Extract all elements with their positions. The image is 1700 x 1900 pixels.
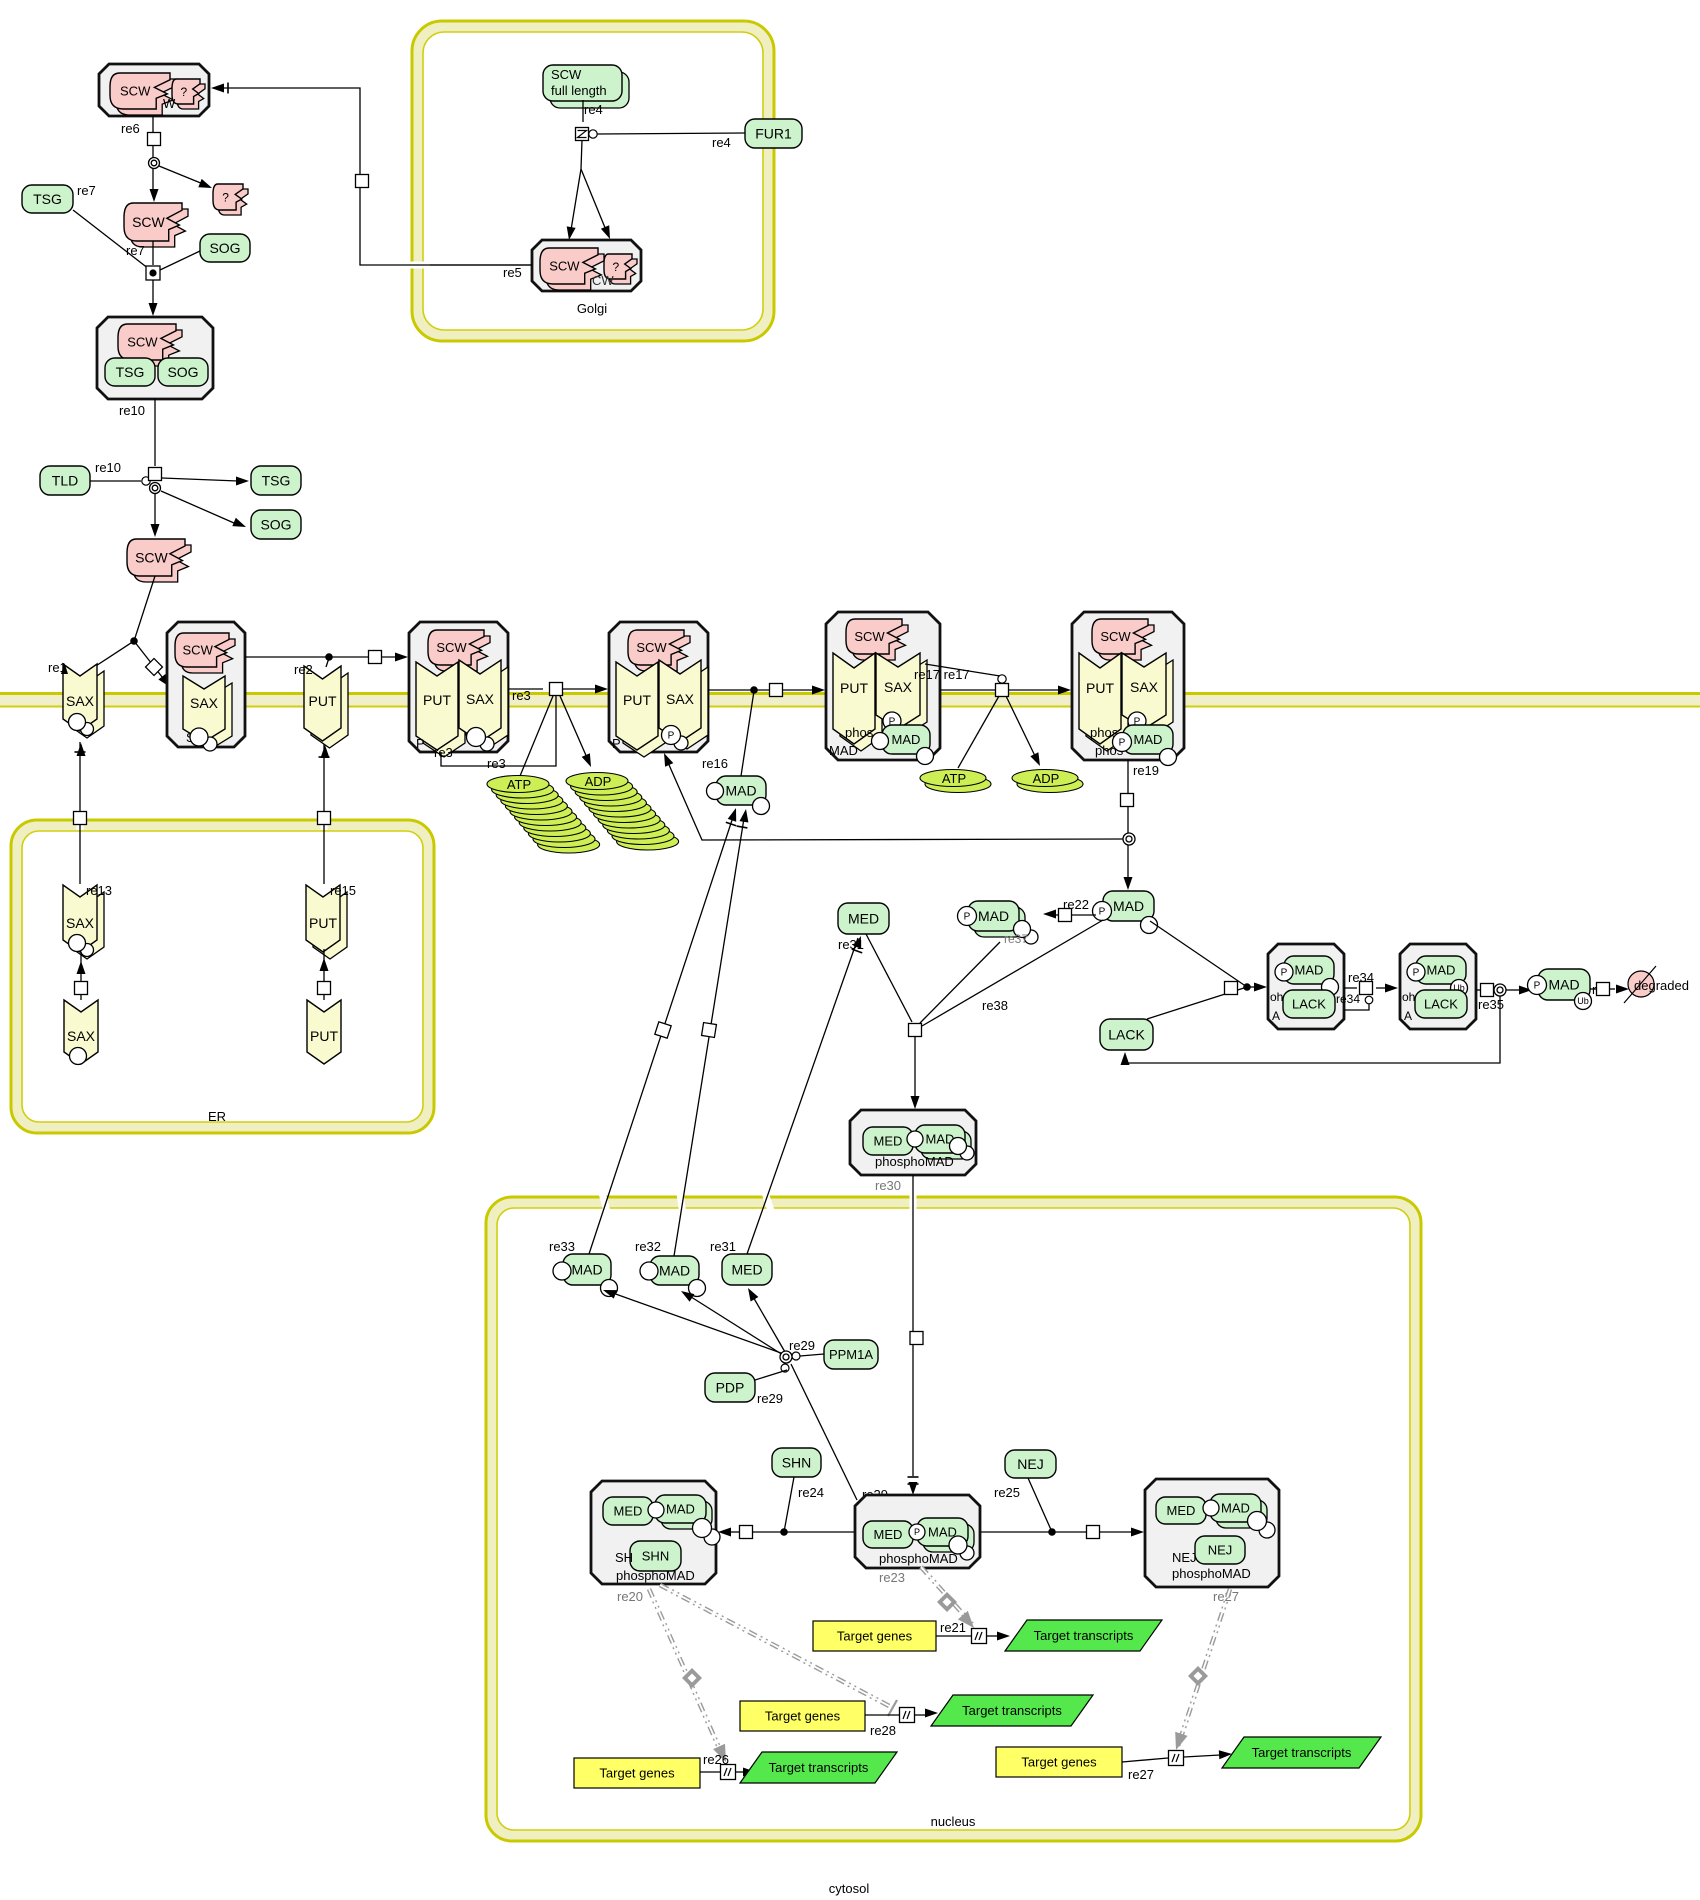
arrow re35 into LACK	[1121, 1052, 1130, 1065]
svg-text:PUT: PUT	[309, 693, 337, 709]
svg-text:re7: re7	[77, 183, 96, 198]
protein TSG product	[251, 466, 301, 495]
svg-text:P: P	[1119, 738, 1126, 749]
protein SOG in re10	[158, 358, 208, 386]
svg-text:SCW: SCW	[135, 550, 168, 566]
arrow re4 right branch	[601, 225, 610, 239]
state circle re34L white	[1322, 979, 1339, 996]
state circle re23 br	[949, 1536, 967, 1554]
arrow re4 left branch	[567, 226, 576, 240]
truncated protein SCW dimer (extracellular, re7 substrate)	[130, 209, 188, 247]
wire re29 product to MAD re33	[610, 1292, 781, 1353]
protein NEJ in re27	[1195, 1536, 1245, 1564]
svg-text:PUT: PUT	[840, 680, 868, 696]
svg-text:re7: re7	[126, 243, 145, 258]
svg-text:re15: re15	[330, 883, 356, 898]
svg-text:SAX: SAX	[884, 679, 913, 695]
wire re19 to MAD re22	[1127, 845, 1129, 884]
svg-text:re20: re20	[617, 1589, 643, 1604]
process square PUT ER	[318, 982, 331, 995]
svg-text:SCW: SCW	[436, 640, 467, 655]
complex re6 (SCW + ?)	[99, 64, 209, 116]
receptor PUT monomer in ER	[307, 1000, 341, 1064]
protein MED in re23	[863, 1521, 913, 1548]
dissociation glyph re29 hub	[780, 1351, 792, 1363]
process square re10	[149, 468, 162, 481]
svg-text:re3: re3	[487, 756, 506, 771]
truncated protein SCW in C2	[434, 636, 490, 671]
truncated protein ? in complex re6	[177, 84, 205, 109]
protein TSG	[22, 185, 73, 213]
junction dot re24	[780, 1528, 788, 1536]
svg-text:SCW: SCW	[551, 67, 582, 82]
svg-text:MAD: MAD	[829, 743, 858, 758]
svg-text:re32: re32	[635, 1239, 661, 1254]
wire re34 main	[1344, 987, 1357, 989]
svg-text:MED: MED	[874, 1134, 903, 1149]
state circle MAD re32 left	[640, 1262, 658, 1280]
svg-text:MAD: MAD	[1427, 963, 1456, 978]
transport ticks into re23	[908, 1476, 919, 1478]
svg-text:PUT: PUT	[310, 1028, 338, 1044]
svg-text:re33: re33	[549, 1239, 575, 1254]
svg-text:MED: MED	[731, 1262, 762, 1278]
svg-text:P: P	[964, 912, 971, 923]
svg-text:SAX: SAX	[666, 691, 695, 707]
transcription square B	[900, 1708, 915, 1723]
svg-text:re4: re4	[712, 135, 731, 150]
protein MAD in re34R	[1416, 956, 1466, 984]
RNA Target transcripts B	[931, 1695, 1093, 1726]
arrow re22 into MAD dimer	[1043, 910, 1056, 919]
truncated protein ? in re5	[609, 259, 637, 284]
svg-text:PDP: PDP	[716, 1380, 745, 1396]
wire re4 down	[582, 100, 584, 122]
ER compartment	[11, 820, 434, 1133]
state circle MAD re16 bottom right	[753, 798, 770, 815]
complex re10 (SCW/TSG/SOG)	[97, 317, 213, 399]
svg-text:Target genes: Target genes	[599, 1766, 675, 1781]
arrow re16 into complex C4	[812, 686, 825, 695]
simple molecule ADP pair	[1017, 776, 1083, 793]
dissociation glyph re6	[149, 158, 160, 169]
protein PPM1A	[824, 1340, 878, 1369]
wire PDP to hub	[755, 1370, 787, 1380]
protein MAD re16	[716, 776, 766, 805]
svg-text:SHN: SHN	[642, 1549, 669, 1564]
svg-text:phosphoMAD: phosphoMAD	[875, 1154, 954, 1169]
svg-text:re16: re16	[702, 756, 728, 771]
arrow re29 to re33	[603, 1290, 617, 1299]
svg-text:re27: re27	[1128, 1767, 1154, 1782]
trigger wire re27 dashed	[1178, 1589, 1230, 1746]
svg-text:re24: re24	[798, 1485, 824, 1500]
svg-text:Target transcripts: Target transcripts	[1252, 1745, 1352, 1760]
arrow re3 into complex C3	[595, 685, 608, 694]
catalysis circle PPM1A	[792, 1352, 800, 1360]
svg-text:MAD: MAD	[725, 783, 756, 799]
complex re5 (SCW + ?) in Golgi	[532, 240, 641, 291]
state circle C5 MAD br	[1160, 749, 1177, 766]
complex C3 PUT/SAX/SCW phosphorylated	[609, 622, 708, 752]
process square re15 on ER border	[318, 812, 331, 825]
wire re15 transport PUT from ER	[321, 806, 328, 830]
svg-text:Target genes: Target genes	[765, 1709, 841, 1724]
trigger arrow re27	[1175, 1732, 1187, 1750]
svg-text:SCW: SCW	[120, 84, 151, 99]
wire re19 return to complex C3	[666, 758, 1123, 840]
protein MAD in C4	[882, 725, 930, 754]
process square re30	[909, 1024, 922, 1037]
wire re1 junction to SAX	[82, 641, 134, 675]
svg-text:SCW: SCW	[549, 259, 580, 274]
arrow re6 to ?	[198, 179, 212, 188]
state circle re20 MAD left	[648, 1502, 664, 1518]
svg-text:MAD: MAD	[666, 1502, 695, 1517]
svg-text:NEJ: NEJ	[1208, 1543, 1233, 1558]
receptor SAX in C4	[883, 660, 927, 736]
wire ER PUT synthesis	[323, 949, 325, 1000]
state circle MAD re33 br	[601, 1280, 618, 1297]
process square re16	[770, 684, 783, 697]
svg-text:ER: ER	[208, 1109, 226, 1124]
wire re35 to product	[1506, 989, 1520, 991]
state circle re30 br shadow	[960, 1146, 974, 1160]
catalysis circle PDP	[781, 1364, 789, 1372]
svg-text:LACK: LACK	[1292, 997, 1326, 1012]
svg-text:NEJ: NEJ	[1017, 1456, 1043, 1472]
receptor PUT in C3	[623, 669, 665, 757]
protein SOG	[200, 234, 250, 262]
wire re33 transport nuclear MAD to cytosol	[602, 1193, 610, 1222]
trigger wire re23 dashed	[921, 1567, 972, 1624]
RNA Target transcripts C	[740, 1752, 897, 1783]
svg-text:re2: re2	[294, 662, 313, 677]
wire re6 to ? protein	[159, 166, 208, 186]
svg-text:phosphoMAD: phosphoMAD	[879, 1551, 958, 1566]
process square re24	[740, 1526, 753, 1539]
truncated protein SCW dimer free (cytosolic side)	[133, 545, 191, 582]
trigger diamond re23	[937, 1592, 957, 1612]
receptor PUT dimer in ER	[313, 892, 347, 959]
arrow re36 into degraded	[1616, 985, 1629, 994]
protein SCW full length dimer	[550, 72, 629, 108]
process square re2	[369, 651, 382, 664]
protein MAD re22 phosphorylated	[1103, 891, 1154, 921]
svg-text:P: P	[1413, 968, 1420, 979]
catalysis circle TLD	[142, 477, 150, 485]
association diamond re1	[146, 659, 163, 676]
svg-text:re10: re10	[95, 460, 121, 475]
truncated protein SCW in re5	[546, 254, 604, 290]
wire into complex re34L	[1247, 986, 1256, 988]
wire re13 transport SAX from ER	[77, 806, 84, 830]
state circle MAD re16 left	[707, 783, 724, 800]
arrow to SOG	[232, 518, 246, 527]
wire re16 from MAD	[741, 691, 754, 776]
receptor SAX dimer at membrane	[70, 671, 104, 738]
complex MAD/LACK ubiquitinated re34R	[1400, 944, 1476, 1029]
association glyph re7	[146, 266, 160, 280]
svg-text:ATP: ATP	[507, 777, 531, 792]
wire re7 SOG to association	[160, 251, 200, 270]
receptor SAX monomer in ER	[64, 1000, 98, 1064]
wire transcription B	[865, 1714, 899, 1716]
arrow into ER SAX	[77, 961, 86, 974]
receptor PUT dimer at membrane	[311, 673, 348, 748]
arrow re17 into complex C5	[1058, 686, 1071, 695]
truncation square re4	[576, 128, 589, 141]
receptor PUT in C4	[840, 660, 882, 751]
svg-text:SOG: SOG	[167, 364, 198, 380]
protein MED re31	[722, 1254, 772, 1285]
svg-text:MAD: MAD	[659, 1263, 690, 1279]
transcription square C	[721, 1765, 736, 1780]
arrow re3 ADP	[582, 753, 591, 767]
protein MED in re27	[1156, 1497, 1206, 1524]
wire re1 from SCW to junction	[134, 576, 155, 641]
state circle MAD-Ub Ub	[1575, 993, 1592, 1010]
svg-text:P: P	[1099, 907, 1106, 918]
arrow re7 into complex re10	[149, 303, 158, 316]
wire re7 TSG to association	[73, 210, 149, 269]
state circle C1 SAX	[190, 728, 208, 746]
svg-text:Target transcripts: Target transcripts	[1034, 1628, 1134, 1643]
complex phosphoMAD re30	[850, 1110, 976, 1175]
complex C4 receptor/MAD	[826, 612, 940, 760]
receptor SAX in C3	[666, 667, 708, 749]
svg-text:SCW: SCW	[183, 643, 214, 658]
svg-text:P: P	[1281, 968, 1288, 979]
svg-text:re31: re31	[710, 1239, 736, 1254]
svg-text:MAD: MAD	[978, 908, 1009, 924]
catalysis circle FUR1	[589, 130, 597, 138]
protein MAD-Ub free	[1538, 969, 1590, 1000]
arrow transcription C	[743, 1768, 756, 1777]
state circle C4 MAD left	[872, 733, 889, 750]
trigger arrow re23	[958, 1611, 974, 1628]
arrow transcription D	[1219, 1750, 1232, 1759]
wire re29 product to MAD re32	[688, 1295, 783, 1355]
state circle re27 br shadow	[1259, 1522, 1275, 1538]
arrow re19 into MAD re22	[1124, 877, 1133, 890]
receptor PUT in C2	[423, 669, 465, 757]
svg-text:P: P	[416, 736, 425, 751]
svg-text:re10: re10	[119, 403, 145, 418]
svg-text:MAD: MAD	[1221, 1501, 1250, 1516]
svg-text:PUT: PUT	[309, 915, 337, 931]
transport square re32	[702, 1023, 717, 1038]
wire re25 NEJ to association dot	[1028, 1478, 1052, 1532]
process square re34	[1360, 982, 1373, 995]
trigger diamond re27	[1188, 1666, 1208, 1686]
arrow into ER PUT	[320, 958, 329, 971]
wire FUR1 to re4	[597, 133, 745, 134]
svg-text:re19: re19	[1133, 763, 1159, 778]
transcription square D	[1169, 1751, 1184, 1766]
junction dot re25	[1048, 1528, 1056, 1536]
protein MAD dimer in re23	[923, 1524, 974, 1552]
state circle MAD re32 br	[689, 1280, 706, 1297]
svg-text:Golgi: Golgi	[577, 301, 607, 316]
trigger arrow re26	[713, 1744, 726, 1762]
svg-text:SCW: SCW	[636, 640, 667, 655]
complex MAD/LACK re34L	[1268, 944, 1344, 1029]
svg-text:phosphoMAD: phosphoMAD	[616, 1568, 695, 1583]
junction dot re2	[325, 653, 333, 661]
state circle re27 br	[1248, 1512, 1267, 1531]
wire re29 product to MED re31	[752, 1295, 785, 1352]
svg-text:re29: re29	[789, 1338, 815, 1353]
state circle C3 shadow	[674, 736, 688, 750]
protein MAD dimer in re27	[1216, 1500, 1267, 1528]
protein SOG product	[251, 510, 301, 539]
svg-text:re29: re29	[757, 1391, 783, 1406]
svg-text:MAD: MAD	[1113, 898, 1144, 914]
arrow re25 into complex re27	[1131, 1528, 1144, 1537]
trigger wire re20 to re26 dashed	[649, 1589, 724, 1759]
protein PDP	[705, 1373, 755, 1402]
svg-text:degraded: degraded	[1634, 978, 1689, 993]
truncated protein SCW in C1	[181, 639, 235, 673]
svg-text:re37: re37	[1004, 932, 1028, 946]
arrow re15 into membrane PUT	[321, 745, 330, 758]
state circle C5 P top	[1128, 712, 1146, 730]
svg-text:cytosol: cytosol	[829, 1881, 870, 1896]
simple molecule ATP pair	[925, 776, 991, 793]
wire re6 transport line from Golgi complex re5	[224, 88, 532, 265]
state circle SAX bottom	[69, 714, 86, 731]
wire re34 modifier elbow from LACK	[1344, 1004, 1369, 1010]
dissociation glyph re19	[1123, 833, 1135, 845]
wire re29 reactant from complex re23	[791, 1364, 857, 1500]
svg-text:re3: re3	[434, 745, 453, 760]
wire re25 association main	[980, 1531, 1087, 1533]
wire re22 to dimer	[1072, 914, 1096, 916]
wire re17 catalysis from complex	[925, 664, 1000, 676]
svg-text:SHN: SHN	[782, 1455, 812, 1471]
svg-text:full length: full length	[551, 83, 607, 98]
state circle re30 MAD left	[907, 1131, 923, 1147]
wire re3 elbow to complex bottom	[441, 696, 556, 766]
arrow re35 into MAD-Ub	[1519, 986, 1532, 995]
state circle C1 SAX shadow	[203, 737, 217, 751]
wire transcription D	[1122, 1758, 1168, 1762]
wire re2 main	[245, 656, 368, 658]
wire re19 down	[1127, 760, 1129, 833]
state circle dimer br shadow	[1024, 930, 1038, 944]
svg-text:?: ?	[612, 260, 619, 274]
protein SHN in re20	[630, 1541, 681, 1571]
svg-text:nucleus: nucleus	[931, 1814, 976, 1829]
svg-text:oh: oh	[1270, 990, 1283, 1004]
trigger wire re20 to re28 dashed	[660, 1585, 893, 1708]
protein P-MAD homodimer re37	[974, 907, 1025, 937]
gene Target genes B	[740, 1701, 865, 1731]
svg-text:MAD: MAD	[1295, 963, 1324, 978]
svg-text:Target genes: Target genes	[837, 1629, 913, 1644]
svg-text:SCW: SCW	[854, 629, 885, 644]
truncated protein SCW in complex re6	[116, 79, 176, 115]
simple molecule ATP multimer stack	[538, 836, 600, 853]
svg-text:ATP: ATP	[942, 771, 966, 786]
wire re4 fork	[570, 140, 582, 236]
wire re17 main	[940, 689, 995, 691]
svg-text:re13: re13	[86, 883, 112, 898]
svg-text:SCW: SCW	[1100, 629, 1131, 644]
junction dot re16	[750, 686, 758, 694]
state circle SAX bottom shadow	[81, 723, 94, 736]
svg-text:SOG: SOG	[209, 240, 240, 256]
svg-text:re25: re25	[994, 1485, 1020, 1500]
wire re7 SCW to association	[152, 241, 154, 265]
wire re31 transport nuclear MED to cytosol	[765, 1193, 775, 1222]
svg-text:MAD: MAD	[1548, 977, 1579, 993]
process square SAX ER	[75, 982, 88, 995]
arrow re29 to re32	[681, 1291, 694, 1302]
state circle re20 br	[693, 1519, 712, 1538]
svg-text:PUT: PUT	[623, 692, 651, 708]
svg-text:re38: re38	[982, 998, 1008, 1013]
arrow re2 into complex C2	[381, 656, 398, 658]
protein NEJ	[1005, 1450, 1056, 1478]
protein MAD in C5	[1123, 725, 1173, 754]
wire re30 to complex	[914, 1036, 916, 1097]
svg-text:P: P	[668, 731, 675, 742]
complex phosphoMAD re23 nuclear	[855, 1495, 980, 1568]
process square re25	[1087, 1526, 1100, 1539]
arrow re24 into complex re20	[718, 1528, 731, 1537]
complex C5 receptor/phosphoMAD	[1072, 612, 1184, 760]
svg-text:P: P	[914, 1527, 920, 1537]
arrow to TSG	[236, 477, 249, 486]
transport square re33	[655, 1022, 671, 1038]
arrow into nuclear phosphoMAD complex	[909, 1482, 918, 1495]
state circle C3 P	[662, 726, 681, 745]
protein MED cytosol	[838, 903, 889, 934]
wire re3 to ATP	[520, 696, 553, 776]
trigger end tick re28	[888, 1700, 897, 1716]
process square re3	[550, 683, 563, 696]
arrow re30 into complex	[911, 1096, 920, 1109]
state circle re27 MAD left	[1203, 1500, 1219, 1516]
protein MAD in re34L	[1284, 956, 1334, 984]
wire re3 main	[508, 688, 543, 690]
wire re1 junction to association glyph	[134, 641, 166, 682]
svg-text:ADP: ADP	[1033, 771, 1060, 786]
svg-text:MED: MED	[1167, 1503, 1196, 1518]
degraded glyph	[1628, 971, 1654, 997]
arrow into complex re6	[211, 84, 224, 93]
wire re24 to complex re20	[729, 1531, 739, 1533]
process square re6 transport	[356, 175, 369, 188]
svg-text:re6: re6	[121, 121, 140, 136]
wire re30 from MED	[866, 934, 912, 1022]
wire re17 to ADP	[1006, 696, 1036, 758]
svg-text:FUR1: FUR1	[755, 126, 792, 142]
protein LACK in re34R	[1415, 990, 1467, 1018]
arrow transcription B	[925, 1709, 938, 1718]
RNA Target transcripts D	[1222, 1737, 1381, 1768]
arrow re29 to re31	[748, 1288, 758, 1302]
svg-text:phos: phos	[845, 725, 874, 740]
protein TSG in re10	[105, 358, 155, 386]
svg-text:TSG: TSG	[116, 364, 145, 380]
wire re2 from PUT	[326, 658, 329, 667]
state circle re34R P	[1407, 963, 1425, 981]
protein MAD dimer in re30	[921, 1131, 971, 1159]
protein SHN	[772, 1448, 821, 1477]
